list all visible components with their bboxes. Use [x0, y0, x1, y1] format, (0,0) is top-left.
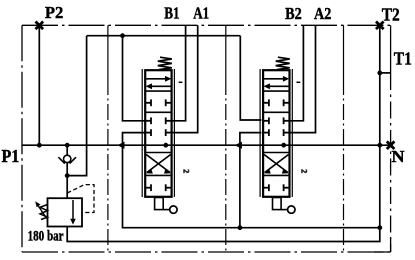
relief valve adjust arrow	[38, 206, 47, 219]
wire gallery corner drop to valve 2	[240, 36, 261, 120]
port N plug	[387, 141, 395, 149]
node valve2 P tap	[281, 143, 286, 148]
svg-text:180 bar: 180 bar	[28, 228, 64, 244]
svg-text:T1: T1	[394, 48, 412, 68]
wire P2 drop line	[38, 25, 40, 145]
wire T1 port stub	[380, 72, 391, 74]
node valve2 return on tank line	[238, 225, 243, 230]
wire B2 drop	[290, 25, 304, 121]
svg-text:P1: P1	[2, 146, 20, 166]
svg-text:P2: P2	[45, 3, 64, 22]
wire A1 drop	[172, 25, 198, 132]
check valve V1	[63, 155, 70, 162]
section divider 3	[343, 25, 345, 79]
svg-text:B1: B1	[164, 4, 179, 23]
relief valve internal arrow	[72, 200, 74, 221]
wire T2-T1 tank column	[379, 25, 381, 227]
relief valve spring	[40, 205, 48, 220]
node P line x T column	[377, 143, 382, 148]
arrow on P line valve2	[235, 142, 242, 149]
node below check valve	[65, 173, 70, 178]
section divider 2	[225, 25, 227, 79]
svg-text:A1: A1	[193, 4, 209, 23]
svg-text:B2: B2	[285, 4, 302, 23]
node T1 junction	[377, 71, 382, 76]
node valve1 P tap	[163, 143, 168, 148]
relief valve pilot line	[67, 185, 94, 213]
wire valve2 return drop	[240, 133, 262, 228]
wire check valve inlet	[66, 145, 68, 155]
node P2 junction	[37, 143, 42, 148]
wire valve1 return to tank line	[123, 133, 380, 228]
node tank lines junction	[377, 225, 382, 230]
node check branch junction	[65, 143, 70, 148]
wire pressure gallery	[87, 35, 241, 37]
node gallery to valve1	[120, 33, 125, 38]
valve V1	[142, 57, 190, 213]
port P2 plug	[36, 22, 44, 30]
valve V2	[260, 57, 308, 213]
svg-text:N: N	[392, 147, 406, 166]
port T2 plug	[376, 22, 384, 30]
wire P1 main line	[22, 144, 391, 146]
wire B1 drop	[172, 25, 186, 121]
arrow on P line valve1	[117, 142, 124, 149]
wire valve1 feed drop	[123, 36, 146, 121]
relief valve RV1 body	[48, 198, 83, 226]
svg-text:T2: T2	[382, 4, 400, 24]
wire check valve outlet	[66, 162, 68, 198]
wire relief outlet tank line	[67, 227, 380, 242]
wire A2 drop	[290, 25, 316, 132]
enclosure border	[22, 25, 391, 252]
svg-text:A2: A2	[314, 4, 331, 23]
section divider 1	[107, 25, 109, 79]
wire bypass to gallery	[67, 36, 86, 176]
